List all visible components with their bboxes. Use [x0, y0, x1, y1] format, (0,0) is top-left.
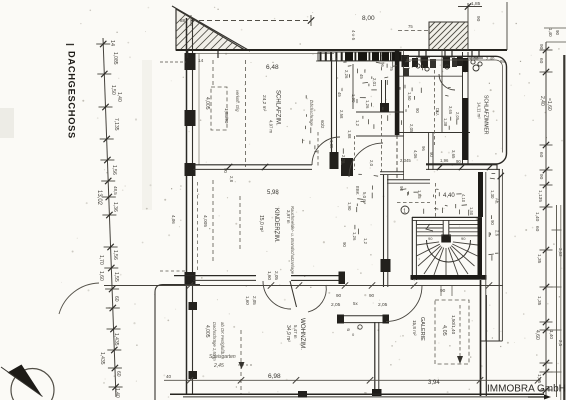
bath partition x442 [441, 50, 443, 132]
svg-text:KINDERZIM.: KINDERZIM. [273, 208, 279, 243]
svg-text:2,345: 2,345 [400, 158, 411, 163]
svg-text:1,88/90: 1,88/90 [224, 108, 229, 124]
svg-text:1,35: 1,35 [536, 296, 542, 306]
svg-text:4·x·5: 4·x·5 [351, 30, 356, 41]
svg-text:1,40: 1,40 [116, 92, 122, 102]
svg-text:1,40: 1,40 [114, 388, 120, 398]
svg-text:Dachschräge 1,50 m: Dachschräge 1,50 m [212, 322, 217, 361]
svg-text:1,70: 1,70 [98, 255, 104, 265]
svg-text:4,40: 4,40 [443, 193, 455, 199]
svg-text:IMMOBRA GmbH: IMMOBRA GmbH [487, 384, 566, 395]
svg-text:Rauchmelder- u. Brandschutzanl: Rauchmelder- u. Brandschutzanlage [290, 206, 295, 275]
svg-text:2,05: 2,05 [455, 112, 460, 121]
svg-text:1,435: 1,435 [99, 352, 105, 365]
bath dashed line [434, 70, 436, 145]
dim line above right [398, 2, 507, 50]
svg-text:DU.: DU. [435, 108, 440, 116]
hall cluster texts [341, 155, 374, 247]
left outer wall [185, 18, 200, 395]
svg-text:60: 60 [538, 152, 544, 158]
dashed x318 [317, 132, 319, 168]
right lower wall [481, 280, 487, 396]
svg-text:4,005: 4,005 [204, 325, 210, 338]
svg-text:8,00: 8,00 [362, 15, 375, 22]
svg-text:5,98: 5,98 [267, 190, 279, 196]
svg-text:24,2 m²: 24,2 m² [261, 95, 267, 112]
svg-text:90: 90 [555, 30, 560, 35]
svg-text:2,8: 2,8 [229, 176, 234, 183]
compass north arrow [1, 365, 54, 400]
right wall below room [481, 169, 504, 341]
svg-text:60: 60 [538, 58, 544, 64]
bath label [435, 106, 460, 127]
wc dashed [381, 115, 383, 172]
bottom dim line [164, 377, 541, 383]
svg-text:2,58: 2,58 [339, 110, 344, 119]
svg-text:60/2: 60/2 [320, 120, 325, 129]
door arc living left [263, 281, 291, 309]
svg-text:90: 90 [399, 186, 404, 191]
svg-text:1,55: 1,55 [113, 272, 119, 282]
handwritten dims horizontal [400, 56, 505, 164]
svg-text:2,40: 2,40 [486, 56, 495, 61]
svg-text:1,35: 1,35 [536, 254, 542, 264]
dashed x197 [197, 182, 199, 273]
svg-text:98: 98 [500, 59, 505, 64]
wall x376 [372, 322, 382, 396]
svg-text:1,85: 1,85 [471, 1, 481, 7]
left dimension chain [96, 38, 122, 397]
svg-text:90: 90 [538, 174, 544, 180]
svg-text:45: 45 [337, 92, 342, 97]
svg-text:1,60: 1,60 [267, 271, 272, 280]
svg-text:1,60: 1,60 [98, 271, 104, 281]
svg-text:90: 90 [461, 236, 466, 241]
scan smudge left margin [0, 108, 14, 138]
dashed wardrobe box [211, 87, 227, 130]
door arc studio [386, 286, 422, 322]
corridor line x403 [403, 50, 405, 180]
svg-text:1,56: 1,56 [111, 165, 117, 175]
svg-text:3,94: 3,94 [428, 380, 440, 386]
margin note rot [212, 322, 225, 361]
gable roof hatch [172, 6, 311, 144]
left dimension labels [96, 40, 122, 398]
dashed box galerie [435, 300, 469, 364]
dashed line x213b [212, 180, 214, 262]
top wall line [176, 50, 507, 54]
svg-text:1,50: 1,50 [407, 92, 412, 101]
handwritten dim cluster [223, 62, 500, 237]
svg-text:1,50: 1,50 [110, 85, 116, 95]
margin dashes y271 [160, 270, 185, 272]
svg-text:1,30: 1,30 [490, 190, 495, 199]
svg-text:90: 90 [415, 108, 420, 113]
bath top partition [399, 132, 470, 170]
svg-text:1,50: 1,50 [469, 207, 474, 216]
margin arc [59, 283, 99, 314]
svg-text:13,02: 13,02 [96, 190, 102, 206]
svg-text:EBK: EBK [355, 186, 360, 195]
svg-text:1,38: 1,38 [443, 118, 448, 127]
svg-text:4,06: 4,06 [171, 215, 176, 224]
svg-text:4,005: 4,005 [204, 97, 210, 110]
svg-text:Ab.: Ab. [495, 198, 500, 204]
svg-text:4,10: 4,10 [461, 194, 466, 203]
svg-text:ab OK Fertigfußb.: ab OK Fertigfußb. [220, 322, 225, 355]
svg-text:90: 90 [429, 152, 434, 157]
svg-text:verkoff. Glg: verkoff. Glg [235, 90, 240, 112]
wc partition y136 [356, 135, 404, 137]
wall between schlafzimmer and kinderzimmer [330, 58, 339, 169]
svg-text:1,40: 1,40 [549, 330, 554, 339]
right room outer wall [404, 56, 507, 170]
svg-text:2,05: 2,05 [252, 296, 257, 305]
svg-text:3,65: 3,65 [448, 106, 453, 115]
room label GALERIE [412, 317, 425, 341]
svg-text:3,65: 3,65 [451, 150, 456, 159]
wc partition y112 [356, 111, 404, 113]
door arc living right [308, 285, 326, 312]
svg-text:15,8 m²: 15,8 m² [412, 320, 417, 336]
svg-text:SCHLAFZIMMER: SCHLAFZIMMER [483, 95, 489, 135]
svg-text:2,05: 2,05 [331, 302, 341, 308]
stair dim 90 [440, 285, 452, 296]
stair right wall upper black [478, 164, 497, 217]
svg-text:1,2: 1,2 [355, 120, 360, 127]
svg-text:4,97 m: 4,97 m [269, 120, 274, 134]
hall small dims [399, 186, 474, 216]
right edge artifact [561, 55, 565, 400]
svg-text:14,11 m²: 14,11 m² [477, 102, 482, 119]
cross wall y166 [193, 158, 353, 176]
svg-text:1,96: 1,96 [440, 158, 449, 163]
dim 1,85 and 90 [408, 1, 481, 29]
svg-text:1,88: 1,88 [347, 130, 352, 139]
svg-text:96: 96 [421, 146, 426, 151]
dashed line x240 [239, 196, 241, 250]
right dimension labels [534, 44, 563, 384]
svg-text:90: 90 [223, 168, 228, 173]
svg-text:WOHNZIM.: WOHNZIM. [299, 318, 306, 350]
firm name IMMOBRA [487, 384, 566, 400]
staircase [411, 217, 487, 280]
right dimension chain 2 [552, 205, 562, 397]
svg-text:=1,60: =1,60 [546, 98, 552, 111]
svg-text:4,005: 4,005 [202, 215, 208, 227]
svg-text:60: 60 [534, 226, 540, 232]
svg-text:90: 90 [336, 293, 342, 298]
dim line y285 [104, 282, 503, 288]
handwriting stroke texture [302, 57, 498, 261]
svg-text:1,35: 1,35 [536, 374, 542, 384]
svg-text:4,60: 4,60 [534, 330, 540, 340]
svg-text:90: 90 [456, 159, 461, 164]
svg-text:4,05: 4,05 [441, 325, 447, 336]
svg-text:1,26: 1,26 [365, 100, 370, 109]
svg-text:1,56: 1,56 [112, 250, 118, 260]
svg-text:SCHLAFZIM.: SCHLAFZIM. [275, 90, 281, 126]
galerie arrow [457, 305, 463, 364]
svg-text:90: 90 [342, 242, 347, 247]
svg-text:1,90: 1,90 [351, 94, 356, 103]
svg-text:1,50/1,40: 1,50/1,40 [451, 315, 456, 335]
terrace note [209, 354, 252, 369]
svg-text:90: 90 [369, 293, 375, 298]
svg-text:1,40: 1,40 [534, 212, 540, 222]
door arc corridor right [349, 143, 383, 177]
tick y62 left [160, 50, 218, 64]
dim 1,60 2,05 rot [267, 271, 279, 280]
svg-text:90: 90 [428, 236, 433, 241]
svg-text:14: 14 [109, 40, 115, 46]
svg-text:90: 90 [490, 220, 495, 225]
bath inner wall y76 [399, 75, 462, 77]
window band hatch [316, 52, 403, 61]
svg-text:1,35: 1,35 [329, 140, 334, 149]
svg-text:7,135: 7,135 [113, 118, 119, 131]
room label SCHLAFZIMMER [261, 90, 281, 134]
svg-text:1,90: 1,90 [347, 202, 352, 211]
svg-text:1,36: 1,36 [112, 202, 118, 212]
wc partition x353 [353, 64, 355, 170]
svg-text:4,06: 4,06 [470, 56, 479, 61]
svg-text:1,085: 1,085 [112, 52, 118, 65]
svg-text:2,01: 2,01 [372, 78, 377, 87]
svg-text:2,26: 2,26 [344, 70, 349, 79]
svg-text:90: 90 [538, 44, 544, 50]
svg-text:1: 1 [403, 208, 406, 214]
small wall y319 [337, 315, 389, 330]
svg-text:1,2: 1,2 [363, 238, 368, 245]
svg-text:1,435: 1,435 [113, 333, 119, 346]
living room wall [174, 272, 345, 285]
svg-text:1,135: 1,135 [537, 190, 543, 202]
title DACHGESCHOSS [66, 45, 77, 139]
right dimension chain [540, 42, 553, 397]
svg-text:14: 14 [198, 58, 204, 64]
svg-text:75: 75 [408, 24, 413, 29]
svg-text:4,06: 4,06 [413, 150, 418, 159]
svg-text:2,45: 2,45 [213, 363, 224, 369]
door arc corridor left [312, 137, 340, 165]
svg-text:1,60: 1,60 [245, 296, 250, 305]
small wall dims [347, 327, 355, 337]
svg-text:40: 40 [166, 374, 172, 379]
svg-text:6,48: 6,48 [266, 64, 279, 71]
door dims left [245, 296, 257, 305]
svg-text:2,6: 2,6 [495, 230, 500, 237]
stair tread labels [428, 236, 466, 241]
svg-text:2,05: 2,05 [274, 271, 279, 280]
svg-text:DACHGESCHOSS: DACHGESCHOSS [67, 51, 77, 139]
svg-text:2,05: 2,05 [409, 124, 414, 133]
svg-text:2,05: 2,05 [378, 302, 388, 308]
svg-text:34,9 m²: 34,9 m² [285, 325, 291, 342]
bath door arc [439, 74, 455, 90]
svg-text:1,40: 1,40 [548, 28, 553, 37]
door dims 90-205 [331, 293, 388, 308]
svg-text:48,5: 48,5 [113, 186, 118, 195]
wc wall x383 [380, 80, 389, 112]
svg-text:1,26: 1,26 [352, 232, 357, 241]
right room label [477, 95, 489, 135]
hall wall [381, 175, 391, 287]
main wall x397 [395, 50, 400, 180]
svg-text:5,47 m: 5,47 m [293, 325, 298, 339]
svg-text:GALERIE: GALERIE [419, 317, 425, 341]
room label KINDERZIMMER [258, 208, 291, 243]
svg-text:6,98: 6,98 [268, 373, 281, 380]
dashed line x213 [212, 60, 214, 87]
svg-text:88: 88 [180, 18, 186, 23]
terrace outline [155, 285, 200, 400]
svg-text:2,0: 2,0 [369, 160, 374, 167]
circled number [401, 206, 409, 214]
svg-text:5,0 m²: 5,0 m² [362, 192, 367, 205]
hall south wall [387, 180, 430, 183]
dashed line x241 [239, 330, 245, 394]
dashed line x245 long [245, 60, 247, 167]
svg-text:Dachschräge: Dachschräge [309, 100, 314, 126]
top dashed dim line [191, 15, 314, 26]
svg-text:45: 45 [359, 74, 364, 79]
svg-text:60: 60 [115, 371, 121, 377]
svg-text:15,0 m²: 15,0 m² [258, 215, 264, 232]
svg-text:5x: 5x [353, 301, 358, 306]
hall dashed lines [397, 183, 436, 219]
svg-text:2,40: 2,40 [539, 96, 545, 106]
bath wall x463-468 [462, 52, 468, 164]
svg-text:ø: ø [347, 327, 350, 332]
svg-text:60: 60 [113, 296, 119, 302]
top right small dims [544, 28, 566, 42]
svg-text:90: 90 [475, 16, 481, 22]
wc south wall [380, 172, 404, 175]
svg-text:1,85: 1,85 [417, 190, 422, 199]
bath fixtures [402, 50, 484, 76]
roof hatch block right [429, 22, 519, 112]
room label WOHNZIMMER [285, 318, 306, 350]
bottom wall [170, 391, 544, 398]
svg-text:75: 75 [389, 66, 394, 71]
